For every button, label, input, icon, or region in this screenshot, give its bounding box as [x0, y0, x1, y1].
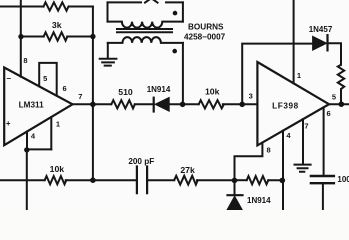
wire pin8 jog	[235, 143, 263, 181]
node dot pin4	[280, 178, 286, 184]
wire cap to 27k	[147, 179, 174, 181]
wire top rail to corner	[69, 6, 93, 8]
svg-text:1N914: 1N914	[247, 196, 271, 205]
wire 3k to bus	[67, 36, 93, 38]
resistor top-left (feedback)	[44, 2, 69, 10]
transformer core	[117, 29, 172, 32]
capacitor 200pF	[137, 167, 147, 194]
svg-text:BOURNS: BOURNS	[188, 23, 224, 32]
wire 3k net	[21, 36, 44, 38]
svg-text:+: +	[6, 119, 11, 128]
diode D3 1N914 vertical	[234, 180, 236, 194]
transformer T1 secondary winding	[108, 37, 183, 43]
svg-text:1000: 1000	[337, 175, 349, 184]
resistor 10k mid	[199, 100, 224, 108]
svg-text:−: −	[6, 74, 11, 83]
wire cap down	[322, 183, 324, 210]
wire strobe down	[26, 149, 28, 210]
wire bottom rail	[0, 179, 45, 181]
wire primary right	[182, 2, 184, 21]
capacitor hold 1000pF	[311, 176, 334, 183]
node dot 3k right	[90, 34, 95, 39]
resistor 10k bottom	[45, 176, 67, 184]
transformer T1 top rail	[108, 1, 142, 3]
wire LM311 output	[73, 103, 112, 105]
node dot transformer	[180, 102, 186, 108]
svg-text:1: 1	[56, 119, 60, 128]
resistor 27k	[174, 176, 198, 185]
svg-text:1N457: 1N457	[309, 25, 333, 34]
resistor cut at top edge	[145, 0, 158, 3]
wire primary left	[107, 2, 109, 21]
op-amp U2 LF398 triangle	[257, 62, 329, 145]
svg-text:510: 510	[118, 87, 133, 97]
svg-text:200 pF: 200 pF	[128, 157, 154, 166]
svg-text:3: 3	[249, 91, 253, 100]
svg-text:7: 7	[304, 121, 308, 130]
node dot output right	[339, 101, 345, 107]
svg-text:5: 5	[43, 74, 47, 83]
svg-text:7: 7	[78, 92, 82, 101]
wire pin7 down	[302, 119, 304, 164]
svg-text:4: 4	[31, 131, 36, 140]
svg-text:4258−0007: 4258−0007	[184, 33, 226, 42]
resistor R 3k	[44, 32, 68, 40]
wire resistor to pin4 node	[268, 179, 282, 181]
phasing dot secondary	[172, 49, 177, 54]
pin 5/6 balance box	[39, 63, 57, 96]
diode D2 1N457 (points right)	[313, 36, 327, 50]
wire node to 1N457 branch up	[242, 44, 311, 105]
wire pin1-pin4 box bottom	[27, 148, 52, 150]
pin 1 lead	[50, 117, 52, 149]
wire resistor to output	[340, 89, 342, 104]
phasing dot primary	[173, 11, 178, 16]
wire diode to corner	[328, 43, 341, 65]
wire node to resistor	[235, 179, 247, 181]
transformer T1 primary winding	[108, 22, 183, 28]
svg-text:4: 4	[286, 131, 291, 140]
ground transformer	[100, 59, 117, 66]
wire 510 to diode	[135, 103, 154, 105]
diode D1 1N914 (points left)	[153, 98, 155, 112]
node dot pin3 branch	[239, 102, 245, 108]
wire secondary right down to node	[182, 43, 184, 104]
svg-text:LF398: LF398	[272, 102, 299, 111]
wire 10k to pin3	[223, 103, 258, 105]
wire secondary left down	[107, 43, 109, 58]
resistor vertical feedback	[338, 65, 344, 89]
svg-text:6: 6	[327, 109, 331, 118]
pin 4 lead	[26, 132, 28, 150]
node dot 27k	[232, 178, 238, 184]
svg-text:3k: 3k	[52, 20, 62, 30]
ground pin7	[295, 165, 311, 172]
wire 27k to node	[197, 179, 235, 181]
wire pin4 down	[282, 131, 284, 210]
svg-text:LM311: LM311	[19, 100, 44, 109]
wire pin8 vertical x=21	[20, 0, 22, 77]
node dot 3k left	[18, 34, 23, 39]
wire pin1 vertical	[293, 0, 295, 83]
svg-text:10k: 10k	[50, 164, 65, 174]
svg-text:1N914: 1N914	[147, 85, 171, 94]
svg-text:27k: 27k	[180, 165, 195, 175]
op-amp U1 LM311 triangle	[4, 68, 72, 146]
resistor 510	[111, 100, 135, 108]
svg-text:6: 6	[63, 84, 67, 93]
wire vertical bus x=93	[92, 7, 94, 181]
node dot output	[90, 102, 96, 108]
resistor bottom right	[247, 176, 269, 184]
svg-text:5: 5	[332, 93, 336, 102]
wire output pin5	[329, 103, 349, 105]
wire diode to node	[169, 103, 199, 105]
svg-text:8: 8	[267, 145, 271, 154]
node dot bus bottom	[90, 177, 96, 183]
wire pin6 down to cap	[323, 108, 325, 176]
node dot strobe	[24, 147, 29, 152]
svg-text:8: 8	[23, 56, 27, 65]
wire to cap	[66, 179, 137, 181]
wire top rail left	[0, 6, 44, 8]
svg-text:1: 1	[297, 71, 301, 80]
svg-text:10k: 10k	[205, 86, 220, 96]
